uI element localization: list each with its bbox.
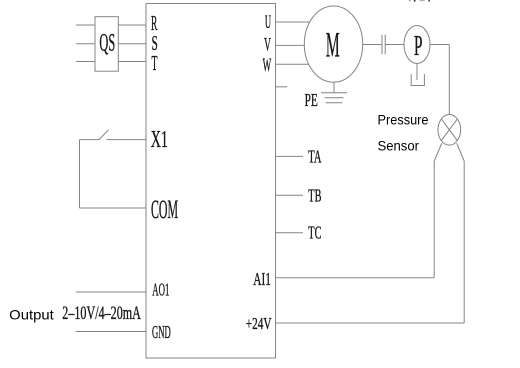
wire V to motor	[276, 44, 307, 46]
switch S1 blade	[99, 130, 109, 140]
wire AI1 horizontal	[276, 277, 435, 279]
wire switch left	[80, 139, 100, 141]
wire pump to riser	[430, 44, 449, 46]
motor M1 circle	[304, 6, 362, 82]
svg-text:Pressure: Pressure	[378, 112, 429, 128]
wire L3 input to QS	[76, 61, 95, 63]
wire QS to R	[118, 24, 146, 26]
svg-text:W: W	[263, 55, 272, 76]
wire TC stub	[276, 232, 304, 234]
svg-text:QS: QS	[99, 28, 115, 57]
pump base bracket	[411, 74, 424, 85]
wire +24V horizontal	[276, 322, 465, 324]
svg-text:P: P	[414, 30, 423, 62]
wire GND terminal	[76, 331, 146, 333]
wire AI1 vertical riser	[433, 161, 435, 278]
svg-text:AI1: AI1	[253, 269, 271, 289]
svg-text:Output: Output	[9, 307, 54, 323]
svg-text:+24V: +24V	[246, 314, 272, 333]
svg-text:COM: COM	[151, 195, 178, 224]
svg-text:TA: TA	[308, 147, 321, 167]
wire QS to S	[118, 43, 146, 45]
wire U to motor	[276, 21, 314, 23]
inverter main box	[146, 4, 276, 359]
svg-text:X1: X1	[151, 126, 168, 153]
svg-text:U: U	[265, 12, 271, 33]
svg-text:V: V	[264, 35, 271, 56]
pressure sensor circle	[438, 115, 461, 146]
pump P1 circle	[404, 26, 430, 64]
svg-text:AO1: AO1	[152, 280, 169, 300]
wire +24V vertical riser	[463, 161, 465, 323]
wire L2 input to QS	[76, 43, 95, 45]
wire PE stub	[276, 86, 288, 88]
wire motor to ground	[333, 82, 335, 93]
svg-text:TC: TC	[308, 223, 321, 243]
ground	[321, 93, 347, 103]
wire left vertical	[79, 140, 81, 208]
svg-text:T: T	[152, 51, 158, 75]
top cut-off text remnants	[409, 0, 430, 2]
wire motor to coupling	[363, 44, 382, 46]
wire COM terminal	[80, 207, 147, 209]
svg-text:M: M	[326, 24, 340, 64]
sensor funnel right	[457, 143, 465, 161]
wire coupling to pump	[385, 44, 404, 46]
wire X1 terminal	[107, 139, 147, 141]
pump base stem	[416, 64, 418, 81]
wire L1 input to QS	[76, 24, 95, 26]
breaker QS box	[95, 17, 118, 71]
sensor X mark	[441, 119, 457, 141]
wire W to motor	[276, 63, 313, 65]
svg-text:Sensor: Sensor	[378, 137, 420, 153]
coupling symbol	[382, 35, 385, 55]
svg-text:PE: PE	[305, 90, 318, 110]
wire QS to T	[118, 61, 146, 63]
wire TA stub	[276, 155, 304, 157]
wire riser to sensor	[448, 45, 450, 116]
sensor funnel left	[434, 143, 442, 161]
svg-text:TB: TB	[308, 185, 321, 205]
wire TB stub	[276, 194, 304, 196]
wire AO1 terminal	[76, 291, 146, 293]
svg-text:GND: GND	[152, 322, 171, 342]
svg-text:2–10V/4–20mA: 2–10V/4–20mA	[62, 303, 141, 324]
